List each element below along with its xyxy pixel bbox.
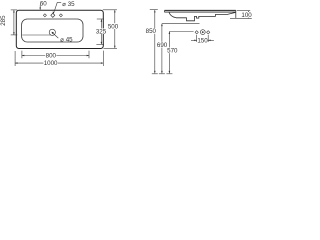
svg-text:⌀ 35: ⌀ 35 [62,1,75,8]
dimension 100: extension tick top [237,10,250,12]
dimension 60 down-arrow to rear edge [39,5,41,10]
text label 690 [157,42,168,49]
dimension 850: floor tick [152,73,158,75]
svg-text:285: 285 [0,15,7,26]
dimension 325: vertical line with arrows [100,19,102,44]
dimension 285: extension tick top [11,9,18,11]
dimension 500: extension tick bottom [104,47,118,49]
text label 800 [45,52,56,59]
dimension 1000: horizontal line with arrows [15,62,103,64]
drain reference line inside bowl [22,34,50,36]
text label 850 [145,28,156,35]
supply valve left (front view, diamond) [195,31,198,34]
dimension 690: extension line to drain boss [162,23,200,25]
svg-text:570: 570 [167,48,178,55]
dimension 500: vertical line with arrows [114,10,116,48]
supply valve right (front view, diamond) [207,31,210,34]
svg-text:325: 325 [96,29,107,36]
drain leader line with arrowhead [53,33,59,38]
dimension 325: extension tick top [97,18,104,20]
dimension 850: vertical line [154,10,156,73]
front view: left end of rim [164,10,166,12]
front view: bowl underside profile with drain boss [169,12,236,21]
svg-text:150: 150 [197,38,208,45]
leader line for tap hole diameter label [54,3,62,14]
dimension 570: vertical line [168,32,170,74]
dimension 690: floor tick [159,73,165,75]
front view: rim band lower edge [165,11,236,13]
svg-text:1000: 1000 [44,60,58,67]
text label 570 [167,47,178,54]
svg-text:60: 60 [40,1,47,8]
drain hole circle (plan) [49,29,55,35]
tap hole left (plan, diamond) [43,14,46,17]
leader arrowhead at middle tap hole [53,12,55,15]
dimension 1000: extension lines [14,51,16,66]
dimension 690: vertical line [161,24,163,74]
svg-text:800: 800 [46,53,57,60]
drain connection (front view, circle with diamond) [200,30,205,35]
dimension 285: vertical line with arrows [13,10,15,35]
dimension 800: horizontal line with arrows [22,55,89,57]
dimension 850: extension tick at rim [150,9,158,11]
text label 100 [241,12,252,19]
dimension 150: right arrow segment [208,39,214,41]
front view: right end edge [235,10,237,18]
text label 325 [96,28,107,35]
dimension 500: extension tick top [103,9,117,11]
dimension 100: vertical line with arrows [248,11,250,19]
washbasin plan view: outer rim rectangle [16,10,103,48]
dimension 800: extension lines [21,51,23,59]
text label 1000 [43,60,58,67]
washbasin plan view: inner bowl outline [22,19,83,42]
dimension 150: left arrow segment [191,39,197,41]
dimension 285: extension tick bottom [11,34,18,36]
svg-text:100: 100 [241,12,252,19]
dimension 325: extension tick bottom [96,43,104,45]
svg-text:⌀ 45: ⌀ 45 [60,36,73,43]
svg-text:850: 850 [146,28,157,35]
tap hole middle (plan, diamond) [51,13,55,17]
dimension 100: extension tick bottom [230,17,252,19]
dimension 570: extension line to valve row [169,31,193,33]
tap hole right (plan, diamond) [59,14,62,17]
text label 150 [197,38,208,45]
text label 500 [108,23,119,30]
dimension 150: extension lines [196,35,198,42]
dimension 570: floor tick [166,73,172,75]
svg-text:500: 500 [108,23,119,30]
front view: rim band top edge [165,9,236,11]
